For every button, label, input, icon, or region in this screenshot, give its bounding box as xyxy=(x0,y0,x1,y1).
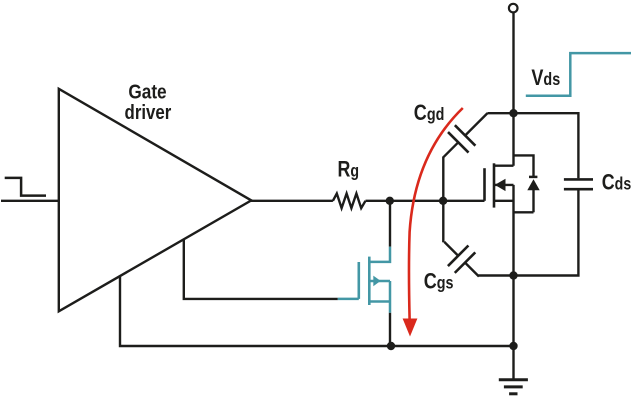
svg-text:Cds: Cds xyxy=(602,171,632,195)
label Vds xyxy=(531,66,560,90)
svg-text:Cgs: Cgs xyxy=(424,270,454,294)
input step waveform xyxy=(5,178,46,196)
svg-text:driver: driver xyxy=(125,100,172,123)
wire teal transistor source down to rail (black part) xyxy=(389,313,391,346)
capacitor C3 Cds xyxy=(514,113,579,178)
label Cgd xyxy=(414,101,445,125)
node junction dots xyxy=(386,109,518,350)
ground xyxy=(499,378,528,381)
label Rg xyxy=(338,158,360,182)
wire gate node down to teal transistor drain (black part) xyxy=(389,201,391,247)
label Cds xyxy=(602,171,632,195)
svg-text:Cgd: Cgd xyxy=(414,101,445,125)
wire Cgs bottom to source node xyxy=(478,274,513,276)
wire feedback drop 1 from triangle to teal gate xyxy=(184,239,338,299)
transistor Q1 (gate-driver side MOSFET, teal) xyxy=(338,247,390,313)
svg-text:Rg: Rg xyxy=(338,158,360,182)
wire: main vertical lower segment through source/ground xyxy=(512,185,514,380)
wire feedback drop 2 from triangle to bottom rail xyxy=(120,276,514,346)
diode D1 body diode branch xyxy=(514,155,534,176)
wire resistor to gate node and to Q2 gate xyxy=(366,200,485,202)
red displacement-current arrow xyxy=(403,108,463,337)
capacitor C2 Cgs (45 deg) xyxy=(442,201,444,243)
op-amp U1 gate driver triangle xyxy=(59,89,252,311)
svg-text:Vds: Vds xyxy=(531,66,560,90)
label Gate driver xyxy=(128,81,166,104)
label Cgs xyxy=(424,270,454,294)
transistor Q2 (power MOSFET, black) xyxy=(485,163,514,207)
node: top supply terminal xyxy=(509,4,518,13)
resistor Rg xyxy=(333,194,366,209)
wire Cgd bottom to gate node xyxy=(442,156,444,200)
Vds step waveform (teal) xyxy=(526,53,631,96)
capacitor C1 Cgd (45 deg) xyxy=(487,112,513,114)
wire input to gate driver xyxy=(1,200,59,202)
node: main drain vertical upper segment xyxy=(512,12,514,165)
wire triangle output to resistor xyxy=(250,200,333,202)
